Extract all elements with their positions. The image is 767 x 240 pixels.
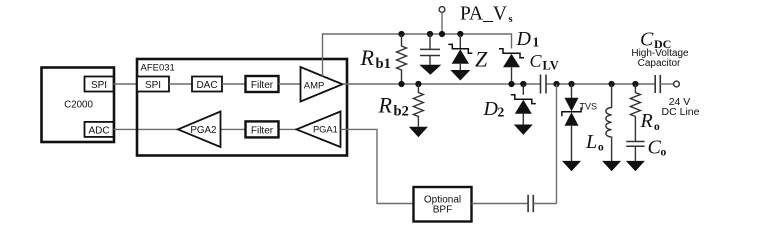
svg-text:SPI: SPI	[145, 80, 161, 91]
svg-text:PGA1: PGA1	[313, 125, 338, 135]
wire AMP top to PA_Vs rail	[323, 34, 512, 76]
ground of Rb2	[409, 127, 428, 137]
port SPI of AFE031	[137, 77, 169, 92]
svg-text:D: D	[516, 28, 532, 50]
terminal 24V DC Line	[662, 81, 700, 118]
wire PGA2 to RX Filter	[221, 128, 246, 130]
node junction D2 cathode	[520, 81, 526, 87]
svg-text:AFE031: AFE031	[141, 63, 175, 74]
node junction BPF riser	[553, 81, 559, 87]
wire DAC to Filter	[222, 83, 246, 85]
wire CLV to CDC line segment	[546, 83, 655, 85]
wire line to BPF capacitor riser	[556, 84, 558, 204]
svg-text:1: 1	[533, 34, 540, 49]
svg-text:Capacitor: Capacitor	[638, 58, 681, 69]
svg-text:o: o	[661, 147, 667, 159]
svg-text:o: o	[654, 121, 660, 133]
wire RX Filter to PGA1	[279, 128, 297, 130]
svg-text:C2000: C2000	[64, 100, 93, 111]
wire SPI to SPI	[114, 83, 138, 85]
ground of Z	[450, 70, 470, 81]
node junction Ro	[632, 81, 638, 87]
capacitor BPF output coupling	[528, 195, 533, 212]
wire Filter to AMP	[279, 83, 301, 85]
node junction Rb1 bottom	[398, 81, 404, 87]
op-amp AMP	[301, 67, 343, 102]
svg-text:L: L	[585, 131, 597, 153]
zener diode Z	[448, 34, 488, 71]
resistor Rb1	[360, 34, 407, 84]
svg-text:BPF: BPF	[433, 205, 452, 216]
capacitor Co	[626, 137, 666, 162]
svg-text:C: C	[530, 51, 543, 71]
svg-text:DC Line: DC Line	[662, 106, 700, 118]
block AFE031	[137, 59, 347, 156]
resistor Rb2	[378, 84, 424, 127]
svg-text:DAC: DAC	[196, 80, 217, 91]
TVS diode	[562, 84, 597, 161]
op-amp PGA1	[297, 112, 341, 148]
svg-text:o: o	[598, 142, 604, 154]
capacitor PA_Vs bypass	[420, 34, 440, 65]
svg-text:C: C	[648, 137, 662, 159]
wire AMP output line	[343, 83, 541, 85]
svg-text:High-Voltage: High-Voltage	[631, 48, 689, 59]
node junction TVS	[568, 81, 574, 87]
node junction PA_Vs wire	[439, 31, 445, 37]
ground of Lo	[602, 161, 621, 171]
node junction Rb1 top	[398, 31, 404, 37]
svg-text:Filter: Filter	[251, 125, 274, 136]
ground of Ro Co	[626, 161, 645, 171]
resistor Ro	[630, 84, 660, 141]
svg-text:ADC: ADC	[88, 125, 109, 136]
wire SPI to DAC	[169, 83, 192, 85]
node junction Z top	[457, 31, 463, 37]
ground of TVS	[562, 161, 581, 171]
wire PGA2 to ADC	[114, 128, 179, 130]
svg-text:b1: b1	[376, 56, 391, 72]
ground of D2	[514, 125, 533, 135]
op-amp PGA2	[178, 112, 221, 148]
svg-text:TVS: TVS	[580, 101, 598, 111]
block TX Filter	[246, 76, 279, 92]
node junction D1 anode	[508, 81, 514, 87]
wire BPF to coupling capacitor	[472, 203, 529, 205]
terminal PA_Vs	[439, 4, 512, 34]
svg-text:2: 2	[498, 105, 505, 120]
svg-text:b2: b2	[394, 104, 409, 120]
svg-text:Filter: Filter	[251, 80, 274, 91]
wire coupling capacitor to line	[533, 203, 556, 205]
block C2000	[42, 68, 115, 143]
port ADC of C2000	[85, 122, 114, 137]
wire PGA1 to BPF	[341, 129, 414, 203]
svg-text:AMP: AMP	[304, 81, 325, 92]
ground of bypass cap	[419, 65, 441, 75]
svg-text:R: R	[360, 45, 375, 70]
block Optional BPF	[414, 187, 472, 222]
node junction Lo	[609, 81, 615, 87]
svg-text:D: D	[483, 98, 499, 120]
port SPI of C2000	[85, 77, 114, 92]
inductor Lo	[585, 84, 612, 161]
capacitor CDC	[631, 28, 689, 93]
block RX Filter	[246, 121, 279, 137]
diode D1	[499, 28, 540, 84]
svg-text:Z: Z	[475, 46, 488, 71]
block DAC	[192, 77, 222, 92]
svg-text:R: R	[378, 93, 393, 118]
svg-text:PA_V: PA_V	[460, 4, 507, 25]
node junction bypass cap top	[427, 31, 433, 37]
diode D2	[483, 84, 536, 125]
svg-text:PGA2: PGA2	[190, 125, 216, 136]
node junction Rb2	[415, 81, 421, 87]
svg-text:SPI: SPI	[91, 80, 107, 91]
svg-text:R: R	[640, 110, 653, 132]
wire CDC to terminal	[660, 83, 673, 85]
svg-text:LV: LV	[543, 59, 559, 73]
svg-text:s: s	[509, 14, 513, 25]
capacitor CLV	[530, 51, 559, 94]
